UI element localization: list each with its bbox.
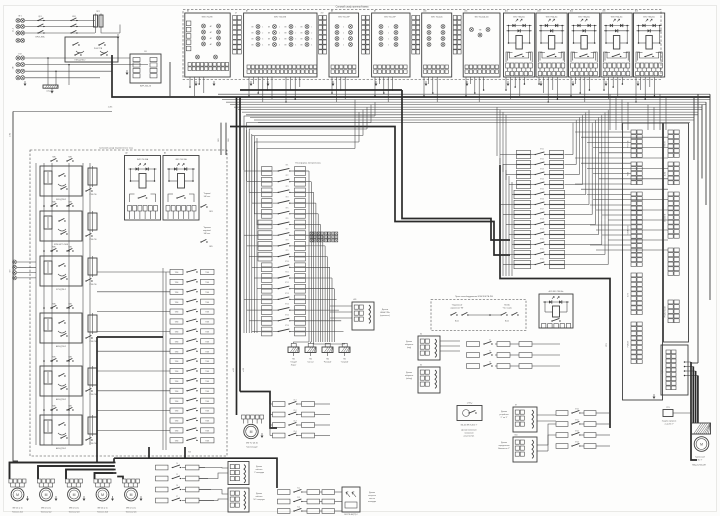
right rung exit wire 12 — [565, 264, 609, 266]
svg-text:Датчик: Датчик — [256, 493, 262, 495]
platform rung 10 — [262, 263, 273, 267]
contact А2 — [138, 197, 139, 198]
sensor K5 (dimensions reverse) — [418, 367, 440, 393]
svg-text:А13: А13 — [537, 10, 540, 13]
terminal row of A8 — [331, 65, 334, 69]
relay contact А15 — [612, 56, 613, 57]
platform rung 7 — [258, 231, 272, 235]
svg-text:АВЗ-ДТМ-2: АВЗ-ДТМ-2 — [56, 447, 66, 450]
svg-text:ВП: ВП — [284, 26, 286, 28]
svg-text:ВК5: ВК5 — [209, 246, 212, 248]
svg-text:устройства: устройства — [499, 413, 508, 416]
right rung 5 — [514, 190, 531, 194]
right rung 7 — [514, 210, 531, 214]
svg-text:M: M — [130, 493, 133, 497]
platform rung wire 14 — [306, 309, 339, 311]
svg-text:У2-1: У2-1 — [293, 400, 296, 402]
fuse column КУЗ-ДТМ-2 — [88, 258, 97, 275]
svg-text:ФИО 750-4ЛР: ФИО 750-4ЛР — [384, 16, 396, 19]
svg-text:КТ40: КТ40 — [575, 409, 579, 411]
terminal row А3 — [166, 206, 170, 212]
module A8 ФИО 750-4ЛР — [329, 13, 359, 77]
platform rung 16 — [262, 327, 273, 331]
power supply module A6 ФИО 750-9В — [185, 13, 230, 77]
strip chain R segment 3 — [668, 192, 673, 196]
right rung exit wire 7 — [565, 214, 593, 216]
incoming wires to strip chains from left — [575, 131, 631, 133]
svg-text:АВЗ-ДТМ-2: АВЗ-ДТМ-2 — [56, 398, 66, 401]
svg-text:У2-3: У2-3 — [293, 421, 296, 423]
relay module А15 ФИО ТМЧ-30к — [601, 13, 632, 77]
wire mains L3 — [25, 32, 95, 34]
svg-text:КТ7: КТ7 — [286, 229, 289, 231]
relay box КУЗ-ДТМ-2 — [40, 256, 82, 286]
winch motor assembly — [692, 423, 711, 434]
relay box АВЗ-ДТМ-2 — [40, 313, 82, 343]
right rung stub 1 — [500, 154, 517, 156]
ladder bus verticals — [162, 268, 164, 450]
arrow row А15 — [604, 30, 629, 32]
coil А2 — [139, 174, 146, 189]
ground at enclosure bottom — [653, 394, 655, 397]
svg-text:'ЧС' площадки: 'ЧС' площадки — [253, 499, 264, 501]
relay module А13 ФИО ТМЧ-30к — [536, 13, 567, 77]
right rung 2 — [517, 160, 531, 164]
relay contact А14 — [580, 56, 581, 57]
mid cluster feed bus — [270, 403, 273, 405]
position sensor VB-100 — [457, 406, 482, 421]
svg-text:ГК2: ГК2 — [326, 359, 329, 361]
svg-text:КТ8: КТ8 — [286, 239, 289, 241]
svg-text:ТУБЕ: ТУБЕ — [205, 302, 209, 304]
right rung stub 4 — [509, 184, 517, 186]
svg-text:МФ 02 (к 1): МФ 02 (к 1) — [41, 507, 51, 510]
svg-text:РЗВ-730: РЗВ-730 — [89, 341, 96, 343]
svg-text:Вх 'У': Вх 'У' — [698, 460, 703, 462]
svg-text:КТ27: КТ27 — [540, 208, 544, 210]
platform rung wire 4 — [306, 202, 316, 204]
svg-text:ТУБЕ: ТУБЕ — [175, 411, 179, 413]
fuse column АВЗ-ДТМ-2 — [88, 368, 97, 385]
svg-text:контроля: контроля — [368, 495, 376, 497]
fuse column КРМ-10РТ-230В — [88, 213, 97, 230]
brake limit switch VK5 — [201, 241, 202, 242]
svg-text:площадке: площадке — [368, 501, 376, 503]
sensor K7 — [513, 407, 537, 432]
svg-text:КМБ: КМБ — [52, 406, 55, 408]
svg-text:M: M — [101, 493, 104, 497]
svg-text:ФИО ТМЧ-30к: ФИО ТМЧ-30к — [643, 15, 655, 18]
terminal strip XT7 — [453, 16, 457, 20]
ground of motor МФ 02 (к 1) — [83, 496, 85, 499]
strip chain L segment 3 — [631, 192, 636, 196]
svg-text:ТУБЕ: ТУБЕ — [175, 292, 179, 294]
ladder B exit — [335, 501, 343, 503]
svg-text:Датчик: Датчик — [256, 466, 262, 468]
svg-text:РЗВ-730: РЗВ-730 — [89, 194, 96, 196]
svg-text:1-ТКЗ-у: 1-ТКЗ-у — [467, 403, 473, 405]
svg-text:У2: У2 — [489, 351, 491, 353]
right rung exit wire 10 — [565, 244, 602, 246]
sensor box D2 — [228, 488, 249, 512]
feeder to trolley motor 4 — [95, 473, 114, 479]
right rung 10 — [514, 240, 531, 244]
svg-text:ВП: ВП — [268, 32, 270, 34]
bus wire 11 — [254, 119, 694, 121]
svg-text:Тележка №4: Тележка №4 — [97, 511, 108, 514]
diode row А13 — [539, 25, 564, 27]
terminal ladder left cabinet — [170, 269, 183, 274]
svg-text:ФИО ТМЧ-30к: ФИО ТМЧ-30к — [546, 15, 558, 18]
svg-text:РКЛБ ВТ: РКЛБ ВТ — [628, 341, 630, 347]
svg-text:габаритов: габаритов — [405, 375, 413, 377]
K2-uB pin dots — [684, 361, 686, 363]
bus wire 2 — [218, 93, 710, 95]
platform rung wire 5 — [306, 213, 319, 215]
ladder A exit wires — [199, 500, 214, 502]
mid cluster exit wires — [315, 424, 331, 426]
svg-text:ВП: ВП — [284, 32, 286, 34]
arrows atop А15 — [613, 19, 615, 21]
svg-text:КМБ: КМБ — [52, 157, 55, 159]
platform rung wire 16 — [306, 331, 344, 333]
svg-text:ТУБЕ: ТУБЕ — [175, 371, 179, 373]
bus wire 8 — [242, 111, 698, 113]
svg-text:РЗВ-730: РЗВ-730 — [89, 443, 96, 445]
svg-text:Тележка №3: Тележка №3 — [69, 511, 80, 514]
sensor box D1 — [228, 462, 249, 485]
diode pair А3 — [177, 164, 179, 166]
svg-text:А16: А16 — [635, 10, 638, 13]
svg-text:'Розовый': 'Розовый' — [324, 361, 332, 364]
relay outline step А16 — [636, 52, 662, 62]
relay module А12 ФИО ТМЧ-30к — [504, 13, 535, 77]
ground of motor МФ 02 (к 1) — [27, 496, 29, 499]
svg-text:'Голубой': 'Голубой' — [341, 361, 349, 364]
relay contact А13 — [547, 56, 548, 57]
svg-text:В1: В1 — [144, 51, 146, 53]
terminal strip above motor МФ 02 (к 1) — [9, 479, 13, 483]
svg-text:РЗВ-730: РЗВ-730 — [89, 284, 96, 286]
wires K7/K10 to ladder — [537, 414, 556, 416]
svg-text:КТ6: КТ6 — [286, 218, 289, 220]
svg-text:ТУБЕ: ТУБЕ — [175, 341, 179, 343]
svg-text:(обход): (обход) — [406, 378, 412, 380]
right ladder exit bundle verticals — [572, 123, 574, 155]
dashed enclosure: power cabinet (top) — [183, 10, 661, 80]
svg-text:КТ41: КТ41 — [575, 420, 579, 422]
svg-text:КТ10: КТ10 — [285, 261, 289, 263]
svg-text:ТУБЕ: ТУБЕ — [205, 381, 209, 383]
svg-text:ТУБЕ: ТУБЕ — [175, 381, 179, 383]
platform rung wire 15 — [306, 320, 342, 322]
svg-text:'Чистильщик': 'Чистильщик' — [246, 447, 258, 449]
bottom ladder A rows — [156, 465, 169, 470]
relay box KM1-DTM-2 — [65, 37, 118, 62]
thick wire into cleaner zone — [240, 392, 277, 429]
relay box КРМ-10РТ-230В — [40, 211, 82, 241]
svg-text:3Ф6: 3Ф6 — [227, 138, 230, 141]
svg-text:ВРкЗ-83А: ВРкЗ-83А — [36, 36, 46, 39]
right rung exit wire 11 — [565, 254, 606, 256]
svg-text:КТ29: КТ29 — [540, 228, 544, 230]
right rung exit wire 5 — [565, 194, 586, 196]
fuse column КМ1-ДТМ-2 — [88, 168, 97, 185]
feeder to cleaner motor — [236, 414, 238, 416]
svg-text:ТУБЕ: ТУБЕ — [205, 371, 209, 373]
svg-text:К10: К10 — [515, 435, 518, 437]
platform rung 9 — [258, 252, 272, 256]
svg-text:ТК2: ТК2 — [309, 359, 312, 361]
right rung exit wire 4 — [565, 184, 583, 186]
svg-text:КТ22: КТ22 — [540, 158, 544, 160]
svg-text:решетки №1: решетки №1 — [464, 435, 474, 438]
svg-text:Датчик: Датчик — [406, 341, 412, 343]
fuse column АВЗ-ДТМ-2 — [88, 417, 97, 434]
svg-text:КТ16: КТ16 — [285, 325, 289, 327]
svg-text:избытка: избытка — [256, 469, 263, 471]
main horizontal bus wire 1 (thick) — [112, 55, 710, 97]
svg-text:ТЛЕ: ТЛЕ — [479, 29, 482, 31]
relay outline step А13 — [539, 52, 565, 62]
svg-text:МФ 02 (к 1): МФ 02 (к 1) — [69, 507, 79, 510]
diode pair А2 — [139, 164, 141, 166]
relay coil А15 — [613, 36, 619, 50]
diode row А16 — [637, 25, 662, 27]
svg-text:ТК1: ТК1 — [292, 359, 295, 361]
feeder pair 3Ф5/3Ф6 to A2 A3 modules — [220, 123, 222, 155]
wire from fuses to module field — [95, 29, 97, 33]
relay contact А16 — [645, 56, 646, 57]
coil А3 — [178, 174, 185, 189]
right rung stub 9 — [509, 234, 514, 236]
feeder pair down to cleaner motor — [236, 97, 238, 415]
terminal strip XT5 — [362, 16, 366, 20]
strip chain L segment 4 — [631, 273, 636, 277]
right rung exit wire 8 — [565, 224, 596, 226]
svg-text:ТУБЕ: ТУБЕ — [175, 421, 179, 423]
feeder to trolley motor 3 — [66, 470, 114, 480]
svg-text:ТУБЕ: ТУБЕ — [205, 391, 209, 393]
svg-text:ТУБЕ: ТУБЕ — [205, 292, 209, 294]
svg-text:'Тормоза: 'Тормоза — [203, 227, 212, 229]
svg-text:А7: А7 — [246, 10, 248, 13]
wire mains L1 — [25, 20, 95, 22]
platform rung 15 — [262, 316, 273, 320]
svg-text:'Общий': 'Общий' — [290, 361, 297, 364]
feeder branch from AC cabinet — [148, 447, 150, 458]
bottom right ladder exit — [596, 423, 610, 425]
sensor box A5 (top) — [352, 302, 374, 330]
svg-text:ФИО 750-4(3): ФИО 750-4(3) — [431, 16, 443, 19]
svg-text:А2: А2 — [125, 152, 127, 155]
terminal strip above motor МФ 02 (к 1) — [94, 479, 98, 483]
svg-text:К5: К5 — [420, 365, 422, 367]
diode row А15 — [604, 25, 629, 27]
ground at XT2 — [24, 81, 26, 84]
svg-text:Пульт левооборудования КОВСК В: Пульт левооборудования КОВСК ВСТА РШ — [455, 295, 493, 298]
svg-text:тока на: тока на — [369, 498, 375, 500]
svg-text:КМБ: КМБ — [52, 202, 55, 204]
right ladder bus verticals — [499, 158, 501, 276]
svg-text:(нуптическ.): (нуптическ.) — [380, 315, 390, 317]
ground symbols under top modules — [195, 81, 197, 84]
platform rung 5 — [262, 209, 273, 213]
terminal strip above motor МФ 02 (к 1) — [122, 479, 126, 483]
platform rung wire 9 — [306, 256, 328, 258]
svg-text:1-Ф5: 1-Ф5 — [9, 133, 12, 137]
platform rung wire 1 — [306, 170, 310, 172]
svg-text:РИКТ ЛВ: РИКТ ЛВ — [628, 141, 630, 148]
svg-text:К7: К7 — [515, 405, 517, 407]
svg-text:ФИО ТМЧ-30к: ФИО ТМЧ-30к — [513, 15, 525, 18]
terminal row А14 — [571, 63, 575, 68]
bottom right ladder exit — [596, 434, 610, 436]
fuse column АВЗ-ДТМ-2 — [88, 315, 97, 332]
svg-text:РЕ2Е: РЕ2Е — [628, 172, 630, 176]
svg-text:Датчик появления: Датчик появления — [461, 430, 476, 432]
junction dots on AC cabinet bus — [43, 205, 45, 207]
arrows atop А14 — [581, 19, 583, 21]
relay box АВЗ-ДТМ-2 — [40, 415, 82, 445]
svg-text:ТУБЕ: ТУБЕ — [205, 361, 209, 363]
motor МФ 02 (к 1) — [95, 483, 97, 487]
platform rung 11 — [262, 274, 273, 278]
svg-text:КТ25: КТ25 — [540, 188, 544, 190]
svg-text:ТУБЕ: ТУБЕ — [205, 312, 209, 314]
thick feeder down mid-right — [402, 90, 510, 240]
platform rung 13 — [262, 295, 273, 299]
svg-text:ТУБЕ: ТУБЕ — [175, 272, 179, 274]
svg-text:ФИО 700 30А: ФИО 700 30А — [137, 158, 149, 161]
svg-text:МФ 02 (к 1): МФ 02 (к 1) — [126, 507, 136, 510]
svg-text:КТ24: КТ24 — [540, 178, 544, 180]
staircase risers to bus — [113, 458, 115, 462]
relay row 1 wires — [532, 354, 560, 356]
svg-text:КУЗ-ДТМ-2: КУЗ-ДТМ-2 — [56, 289, 66, 291]
svg-text:КТ23: КТ23 — [540, 168, 544, 170]
svg-text:КТ30: КТ30 — [540, 238, 544, 240]
thick right ladder feed — [500, 165, 610, 428]
svg-text:Датчик: Датчик — [501, 411, 507, 413]
diode row А14 — [572, 25, 597, 27]
bus wire 7 — [238, 109, 702, 111]
motor МФ 02 (к 1) — [123, 483, 125, 487]
motor base hatch — [692, 433, 711, 435]
bundle turns to plugs — [294, 342, 310, 343]
svg-text:ЭМ нал.: ЭМ нал. — [204, 233, 211, 235]
right rung stub 11 — [500, 254, 514, 256]
svg-text:4Т: 4Т — [235, 13, 237, 15]
distribution module A7 ФИО 750-92В — [244, 13, 317, 77]
svg-text:4Т2: 4Т2 — [321, 13, 324, 15]
svg-text:Экран': Экран' — [291, 365, 297, 367]
platform rung wire 11 — [306, 277, 333, 279]
svg-text:ВБ-100 МР-П-4/10 'У': ВБ-100 МР-П-4/10 'У' — [461, 425, 478, 427]
svg-text:А11: А11 — [354, 298, 357, 301]
mid cluster exit wires — [315, 414, 331, 416]
bus wire 9 — [246, 114, 698, 116]
arrow row А12 — [507, 30, 532, 32]
platform rung wire 2 — [306, 181, 312, 183]
starter module А3 ФИО 700-30А — [163, 156, 199, 221]
svg-text:КТ43: КТ43 — [575, 442, 579, 444]
svg-text:управления 'ТМ': управления 'ТМ' — [451, 308, 464, 310]
svg-text:КМ1: КМ1 — [72, 16, 76, 18]
svg-text:А15: А15 — [602, 10, 605, 13]
svg-text:КТ21: КТ21 — [540, 148, 544, 150]
relay module А14 ФИО ТМЧ-30к — [569, 13, 600, 77]
junctions on XT2 wires — [47, 57, 49, 59]
right rung stub 10 — [512, 244, 514, 246]
svg-text:Датчик: Датчик — [369, 492, 375, 494]
lamp rows in A7 — [256, 25, 260, 29]
svg-text:КТ3: КТ3 — [286, 186, 289, 188]
cleaner motor — [244, 424, 258, 438]
right rung stub 2 — [503, 164, 517, 166]
right area drop wires from bus to strips — [609, 94, 611, 130]
svg-text:КТ4: КТ4 — [286, 197, 289, 199]
svg-text:У7: У7 — [176, 496, 178, 498]
bottom ladder B rows — [278, 490, 291, 495]
bus wire 5 — [230, 104, 706, 106]
thick tie line into ladder — [97, 336, 163, 338]
ground of motor МФ 02 (к 1) — [140, 496, 142, 499]
svg-text:А9: А9 — [374, 10, 376, 13]
svg-text:КМВ: КМВ — [68, 157, 71, 159]
svg-text:А12 ФИО 786-30к: А12 ФИО 786-30к — [549, 290, 564, 293]
svg-text:ФИО 750-9В: ФИО 750-9В — [202, 16, 214, 19]
svg-text:КТ42: КТ42 — [575, 431, 579, 433]
svg-text:КТ31: КТ31 — [540, 248, 544, 250]
svg-text:КТ15: КТ15 — [285, 314, 289, 316]
relay box АВЗ-ДТМ-2 — [40, 366, 82, 396]
terminal row of A9 — [374, 65, 377, 69]
strip chain L segment 1 — [631, 130, 636, 134]
ladder A exit wires — [199, 478, 208, 480]
svg-text:Тележка №5: Тележка №5 — [126, 511, 137, 514]
svg-text:ВП: ВП — [300, 26, 302, 28]
bottom right relay ladder — [556, 411, 568, 416]
svg-text:КТ26: КТ26 — [540, 198, 544, 200]
aux contact КМ1-ДТМ-2 — [86, 190, 87, 191]
svg-text:ПР2: ПР2 — [96, 11, 100, 13]
svg-text:M: M — [45, 493, 48, 497]
bus wire 3 — [222, 99, 710, 101]
internal bus verticals of AC cabinet — [35, 163, 37, 445]
terminal strip XT4 — [319, 16, 323, 20]
right rung stub 12 — [503, 264, 514, 266]
relay coil А16 — [646, 36, 652, 50]
platform rung wire 12 — [306, 288, 335, 290]
svg-text:'С' площадки: 'С' площадки — [254, 472, 264, 474]
ground under shield bar — [51, 89, 53, 92]
relay module A12 ФИО 786-30к — [539, 294, 573, 328]
screen plug ГК2 — [322, 347, 333, 353]
terminal block XT8 at left edge — [13, 260, 17, 264]
diode row А12 — [507, 25, 532, 27]
svg-text:ТУБЕ: ТУБЕ — [175, 361, 179, 363]
svg-text:'Тормоз': 'Тормоз' — [203, 193, 211, 195]
motor МФ 02 (к 1) — [66, 483, 68, 487]
feeder to trolley motor 5 — [10, 463, 115, 480]
svg-text:ФИО 750-4ЛР: ФИО 750-4ЛР — [338, 16, 350, 19]
svg-text:ЭМ нал.: ЭМ нал. — [204, 196, 211, 198]
dashed enclosure: AC cabinet left — [30, 150, 227, 456]
contact group KM1 poles — [71, 20, 72, 21]
svg-text:А8: А8 — [331, 10, 333, 13]
svg-text:У6: У6 — [176, 485, 178, 487]
